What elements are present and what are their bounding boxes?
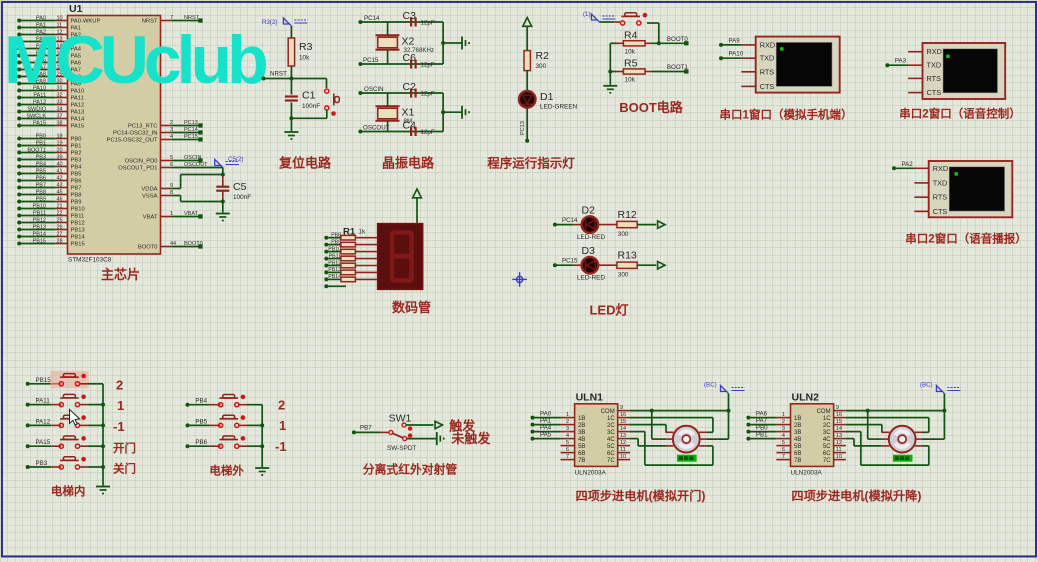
svg-text:PA3: PA3 bbox=[895, 58, 907, 65]
svg-text:42: 42 bbox=[57, 175, 63, 181]
svg-text:5C: 5C bbox=[607, 444, 615, 450]
svg-text:PB12: PB12 bbox=[71, 221, 85, 227]
svg-text:未触发: 未触发 bbox=[450, 431, 491, 446]
svg-text:25: 25 bbox=[57, 217, 63, 223]
svg-text:BOOT电路: BOOT电路 bbox=[619, 100, 684, 115]
svg-text:PA12: PA12 bbox=[36, 418, 51, 425]
svg-text:(BC): (BC) bbox=[920, 382, 933, 389]
svg-text:SW-SPDT: SW-SPDT bbox=[387, 445, 416, 452]
svg-text:PB6: PB6 bbox=[195, 439, 207, 446]
svg-text:PA11: PA11 bbox=[36, 398, 51, 405]
svg-text:X1: X1 bbox=[402, 107, 415, 119]
svg-text:PB12: PB12 bbox=[328, 260, 341, 266]
svg-text:28: 28 bbox=[57, 238, 63, 244]
svg-text:18: 18 bbox=[57, 133, 63, 139]
svg-text:3B: 3B bbox=[794, 430, 801, 436]
svg-text:X2: X2 bbox=[402, 36, 415, 48]
svg-text:3: 3 bbox=[566, 426, 569, 432]
svg-text:14: 14 bbox=[836, 426, 842, 432]
svg-text:10k: 10k bbox=[625, 77, 636, 84]
svg-text:分离式红外对射管: 分离式红外对射管 bbox=[363, 463, 458, 477]
svg-text:38: 38 bbox=[57, 120, 63, 126]
svg-text:串口2窗口（语音播报）: 串口2窗口（语音播报） bbox=[905, 232, 1026, 246]
svg-text:PB6: PB6 bbox=[71, 179, 82, 185]
svg-text:PC15: PC15 bbox=[562, 258, 578, 265]
svg-text:1: 1 bbox=[279, 418, 286, 433]
svg-text:PB11: PB11 bbox=[329, 253, 341, 259]
svg-text:R3: R3 bbox=[299, 41, 313, 53]
svg-text:6C: 6C bbox=[607, 451, 615, 457]
svg-text:串口2窗口（语音控制）: 串口2窗口（语音控制） bbox=[899, 107, 1020, 121]
svg-text:PB1: PB1 bbox=[756, 432, 768, 439]
svg-text:PA1: PA1 bbox=[540, 418, 552, 425]
svg-text:C6: C6 bbox=[403, 52, 417, 64]
svg-text:PA10: PA10 bbox=[729, 51, 744, 58]
svg-text:4: 4 bbox=[782, 433, 785, 439]
svg-text:D2: D2 bbox=[582, 205, 596, 217]
svg-text:PA0: PA0 bbox=[36, 15, 46, 21]
svg-text:PB1: PB1 bbox=[36, 140, 46, 146]
svg-text:16: 16 bbox=[620, 412, 626, 418]
svg-text:PB5: PB5 bbox=[71, 172, 82, 178]
svg-text:PB8: PB8 bbox=[71, 193, 82, 199]
svg-text:PA4: PA4 bbox=[540, 425, 552, 432]
svg-text:VDDA: VDDA bbox=[141, 187, 157, 193]
svg-text:PB0: PB0 bbox=[36, 133, 46, 139]
svg-text:PB11: PB11 bbox=[33, 210, 46, 216]
svg-text:TXD: TXD bbox=[933, 178, 948, 187]
svg-text:PB11: PB11 bbox=[71, 214, 85, 220]
svg-text:PB14: PB14 bbox=[33, 231, 46, 237]
svg-text:MCUclub: MCUclub bbox=[4, 22, 266, 98]
svg-text:VBAT: VBAT bbox=[184, 211, 199, 217]
svg-text:TXD: TXD bbox=[760, 54, 775, 63]
svg-text:PA2: PA2 bbox=[902, 161, 914, 168]
svg-text:PC13: PC13 bbox=[184, 120, 198, 126]
svg-text:4B: 4B bbox=[578, 437, 585, 443]
svg-text:34: 34 bbox=[57, 106, 63, 112]
svg-text:COM: COM bbox=[601, 409, 615, 415]
svg-text:19: 19 bbox=[57, 140, 63, 146]
svg-text:C3: C3 bbox=[403, 10, 417, 22]
svg-text:PC14: PC14 bbox=[364, 15, 380, 22]
svg-text:PB7: PB7 bbox=[36, 182, 46, 188]
svg-text:37: 37 bbox=[57, 113, 63, 119]
svg-text:PB10: PB10 bbox=[33, 203, 46, 209]
svg-text:PB10: PB10 bbox=[71, 207, 85, 213]
svg-text:R12: R12 bbox=[618, 209, 637, 221]
svg-text:5B: 5B bbox=[578, 444, 585, 450]
svg-text:2B: 2B bbox=[578, 423, 585, 429]
svg-text:10k: 10k bbox=[625, 49, 636, 56]
svg-text:数码管: 数码管 bbox=[392, 300, 431, 315]
svg-text:4B: 4B bbox=[794, 437, 801, 443]
svg-text:10: 10 bbox=[836, 454, 842, 460]
svg-text:R13: R13 bbox=[618, 250, 637, 262]
svg-text:PB9: PB9 bbox=[331, 239, 341, 245]
svg-text:13: 13 bbox=[836, 433, 842, 439]
svg-text:ULN2: ULN2 bbox=[792, 392, 820, 404]
svg-text:3: 3 bbox=[782, 426, 785, 432]
svg-text:41: 41 bbox=[57, 168, 63, 174]
svg-text:11: 11 bbox=[620, 447, 626, 453]
svg-text:1B: 1B bbox=[578, 416, 585, 422]
svg-text:关门: 关门 bbox=[113, 462, 136, 476]
svg-text:OSCIN: OSCIN bbox=[364, 86, 384, 93]
svg-text:RTS: RTS bbox=[760, 67, 775, 76]
svg-text:SW1: SW1 bbox=[389, 413, 412, 425]
svg-text:D1: D1 bbox=[540, 91, 554, 103]
svg-text:46: 46 bbox=[57, 196, 63, 202]
svg-text:CTS: CTS bbox=[760, 82, 775, 91]
svg-text:PB2: PB2 bbox=[71, 151, 82, 157]
svg-text:CTS: CTS bbox=[933, 207, 948, 216]
svg-text:1C: 1C bbox=[607, 416, 615, 422]
svg-text:VBAT: VBAT bbox=[143, 215, 158, 221]
svg-text:BOOT1: BOOT1 bbox=[667, 64, 689, 71]
svg-text:PB6: PB6 bbox=[36, 175, 46, 181]
svg-text:PC15: PC15 bbox=[184, 134, 198, 140]
svg-text:10k: 10k bbox=[299, 55, 310, 62]
svg-text:C2: C2 bbox=[403, 81, 417, 93]
svg-text:R4: R4 bbox=[624, 30, 638, 42]
svg-text:39: 39 bbox=[57, 154, 63, 160]
svg-text:RXD: RXD bbox=[927, 47, 942, 56]
svg-text:PB5: PB5 bbox=[36, 168, 46, 174]
svg-text:PA15: PA15 bbox=[36, 439, 51, 446]
svg-text:-1: -1 bbox=[275, 439, 287, 454]
svg-text:PB0: PB0 bbox=[71, 137, 82, 143]
svg-text:6C: 6C bbox=[823, 451, 831, 457]
svg-text:PB5: PB5 bbox=[195, 418, 207, 425]
svg-text:LED-GREEN: LED-GREEN bbox=[540, 104, 578, 111]
svg-text:(BC): (BC) bbox=[704, 382, 717, 389]
svg-text:2C: 2C bbox=[823, 423, 831, 429]
svg-text:D3: D3 bbox=[582, 245, 596, 257]
svg-text:C4: C4 bbox=[403, 120, 417, 132]
svg-text:PB7: PB7 bbox=[71, 186, 82, 192]
svg-text:300: 300 bbox=[618, 272, 629, 279]
svg-text:7: 7 bbox=[566, 454, 569, 460]
svg-text:PC14: PC14 bbox=[184, 127, 198, 133]
svg-text:2B: 2B bbox=[794, 423, 801, 429]
svg-text:2: 2 bbox=[116, 378, 123, 393]
svg-text:12: 12 bbox=[836, 440, 842, 446]
svg-text:PB10: PB10 bbox=[328, 246, 341, 252]
svg-text:2: 2 bbox=[782, 419, 785, 425]
svg-text:CTS: CTS bbox=[927, 88, 942, 97]
svg-text:C1: C1 bbox=[302, 90, 316, 102]
svg-text:5B: 5B bbox=[794, 444, 801, 450]
svg-text:STM32F103C8: STM32F103C8 bbox=[68, 257, 112, 264]
svg-text:6B: 6B bbox=[578, 451, 585, 457]
svg-text:程序运行指示灯: 程序运行指示灯 bbox=[487, 156, 575, 171]
svg-text:45: 45 bbox=[57, 189, 63, 195]
svg-text:12: 12 bbox=[620, 440, 626, 446]
svg-text:12pF: 12pF bbox=[421, 62, 435, 69]
svg-text:5: 5 bbox=[782, 440, 785, 446]
svg-text:40: 40 bbox=[57, 161, 63, 167]
svg-text:PA0: PA0 bbox=[540, 411, 552, 418]
svg-text:100nF: 100nF bbox=[302, 103, 320, 110]
svg-text:PC14: PC14 bbox=[562, 217, 578, 224]
svg-text:ULN2003A: ULN2003A bbox=[575, 470, 607, 477]
svg-text:1B: 1B bbox=[794, 416, 801, 422]
svg-text:RXD: RXD bbox=[760, 40, 775, 49]
svg-text:1C: 1C bbox=[823, 416, 831, 422]
svg-text:C5: C5 bbox=[233, 181, 247, 193]
svg-text:7C: 7C bbox=[607, 458, 615, 464]
svg-text:PA12: PA12 bbox=[33, 99, 46, 105]
svg-text:12pF: 12pF bbox=[421, 20, 435, 27]
svg-text:PB15: PB15 bbox=[71, 242, 85, 248]
svg-text:复位电路: 复位电路 bbox=[278, 156, 332, 171]
svg-text:PB13: PB13 bbox=[328, 267, 341, 273]
svg-text:1: 1 bbox=[782, 412, 785, 418]
svg-text:20: 20 bbox=[57, 147, 63, 153]
svg-text:LED-RED: LED-RED bbox=[577, 234, 605, 241]
svg-text:OSCOUT: OSCOUT bbox=[184, 162, 208, 168]
svg-text:COM: COM bbox=[817, 409, 831, 415]
svg-text:VSSA: VSSA bbox=[142, 194, 158, 200]
svg-text:SWCLK: SWCLK bbox=[26, 113, 46, 119]
svg-text:PC13_RTC: PC13_RTC bbox=[128, 124, 158, 130]
svg-text:4C: 4C bbox=[607, 437, 615, 443]
svg-text:PB14: PB14 bbox=[71, 235, 86, 241]
svg-text:LED-RED: LED-RED bbox=[577, 275, 605, 282]
svg-text:13: 13 bbox=[620, 433, 626, 439]
svg-text:PA9: PA9 bbox=[729, 37, 741, 44]
svg-text:5: 5 bbox=[566, 440, 569, 446]
svg-text:PB4: PB4 bbox=[36, 161, 46, 167]
svg-text:PB0: PB0 bbox=[756, 425, 768, 432]
svg-text:7B: 7B bbox=[578, 458, 585, 464]
svg-text:TXD: TXD bbox=[927, 61, 942, 70]
svg-text:4: 4 bbox=[566, 433, 569, 439]
svg-text:RTS: RTS bbox=[933, 193, 948, 202]
svg-text:26: 26 bbox=[57, 224, 63, 230]
svg-text:15: 15 bbox=[836, 419, 842, 425]
svg-text:PA13: PA13 bbox=[71, 110, 85, 116]
svg-text:RTS: RTS bbox=[927, 74, 942, 83]
svg-text:300: 300 bbox=[618, 231, 629, 238]
svg-text:PA12: PA12 bbox=[71, 103, 85, 109]
svg-text:PC15: PC15 bbox=[363, 57, 379, 64]
svg-text:LED灯: LED灯 bbox=[589, 303, 628, 318]
svg-text:四项步进电机(模拟开门): 四项步进电机(模拟开门) bbox=[576, 488, 706, 503]
svg-text:100nF: 100nF bbox=[233, 194, 251, 201]
svg-text:PB15: PB15 bbox=[36, 377, 52, 384]
svg-text:16: 16 bbox=[836, 412, 842, 418]
svg-text:R3(2): R3(2) bbox=[262, 19, 277, 26]
svg-text:-1: -1 bbox=[113, 419, 125, 434]
svg-text:2: 2 bbox=[278, 398, 285, 413]
svg-text:四项步进电机(模拟升降): 四项步进电机(模拟升降) bbox=[791, 488, 921, 503]
svg-text:PB9: PB9 bbox=[71, 200, 82, 206]
svg-text:C5(2): C5(2) bbox=[228, 156, 243, 163]
svg-text:(1): (1) bbox=[583, 11, 591, 18]
svg-text:ULN2003A: ULN2003A bbox=[791, 470, 823, 477]
svg-text:NRST: NRST bbox=[270, 71, 287, 78]
svg-text:14: 14 bbox=[620, 426, 626, 432]
svg-text:12pF: 12pF bbox=[421, 91, 435, 98]
svg-text:开门: 开门 bbox=[113, 441, 136, 455]
svg-text:BOOT0: BOOT0 bbox=[138, 245, 158, 251]
svg-text:PB13: PB13 bbox=[33, 224, 46, 230]
svg-text:U1: U1 bbox=[69, 3, 83, 15]
svg-text:PB9: PB9 bbox=[36, 196, 46, 202]
svg-text:电梯内: 电梯内 bbox=[51, 484, 86, 498]
svg-text:9: 9 bbox=[620, 405, 623, 411]
svg-text:PC13: PC13 bbox=[520, 121, 526, 135]
svg-text:PB1: PB1 bbox=[71, 144, 82, 150]
svg-text:15: 15 bbox=[620, 419, 626, 425]
svg-text:4C: 4C bbox=[823, 437, 831, 443]
svg-text:PB8: PB8 bbox=[36, 189, 46, 195]
svg-text:PB14: PB14 bbox=[328, 274, 341, 280]
svg-text:22: 22 bbox=[57, 210, 63, 216]
svg-text:BOOT1: BOOT1 bbox=[27, 147, 46, 153]
svg-text:27: 27 bbox=[57, 231, 63, 237]
svg-text:33: 33 bbox=[57, 99, 63, 105]
svg-text:PB4: PB4 bbox=[71, 165, 83, 171]
svg-text:7B: 7B bbox=[794, 458, 801, 464]
svg-text:SWDIO: SWDIO bbox=[27, 106, 46, 112]
svg-text:PA7: PA7 bbox=[756, 418, 768, 425]
svg-text:12pF: 12pF bbox=[421, 129, 435, 136]
svg-text:PA15: PA15 bbox=[33, 120, 46, 126]
svg-text:PB3: PB3 bbox=[36, 460, 48, 467]
svg-text:3C: 3C bbox=[823, 430, 831, 436]
svg-text:5C: 5C bbox=[823, 444, 831, 450]
svg-text:10: 10 bbox=[620, 454, 626, 460]
svg-text:OSCIN_PD0: OSCIN_PD0 bbox=[125, 159, 158, 165]
svg-text:1: 1 bbox=[117, 398, 124, 413]
svg-text:300: 300 bbox=[536, 63, 547, 70]
svg-text:串口1窗口（模拟手机端）: 串口1窗口（模拟手机端） bbox=[720, 108, 853, 122]
svg-text:PB13: PB13 bbox=[71, 228, 85, 234]
svg-text:R5: R5 bbox=[624, 58, 638, 70]
svg-text:OSCOUT: OSCOUT bbox=[363, 125, 390, 132]
svg-text:1k: 1k bbox=[359, 229, 366, 236]
svg-text:9: 9 bbox=[836, 405, 839, 411]
svg-text:R2: R2 bbox=[536, 50, 550, 62]
svg-text:PC14-OSC32_IN: PC14-OSC32_IN bbox=[113, 131, 157, 137]
svg-text:PB4: PB4 bbox=[195, 398, 207, 405]
svg-text:10: 10 bbox=[57, 15, 63, 21]
svg-text:PA5: PA5 bbox=[540, 432, 552, 439]
svg-text:7C: 7C bbox=[823, 458, 831, 464]
svg-text:PB7: PB7 bbox=[360, 425, 372, 432]
svg-text:NRST: NRST bbox=[184, 15, 200, 21]
svg-text:3B: 3B bbox=[578, 430, 585, 436]
svg-text:晶振电路: 晶振电路 bbox=[382, 156, 435, 171]
svg-text:PA6: PA6 bbox=[756, 411, 768, 418]
svg-text:1: 1 bbox=[566, 412, 569, 418]
svg-text:OSCOUT_PD1: OSCOUT_PD1 bbox=[118, 166, 157, 172]
svg-text:6: 6 bbox=[782, 447, 785, 453]
svg-text:7: 7 bbox=[782, 454, 785, 460]
svg-text:ULN1: ULN1 bbox=[576, 392, 604, 404]
svg-text:11: 11 bbox=[836, 447, 842, 453]
svg-text:PC15-OSC32_OUT: PC15-OSC32_OUT bbox=[107, 138, 158, 144]
svg-text:PA15: PA15 bbox=[71, 124, 85, 130]
svg-text:PA14: PA14 bbox=[71, 117, 86, 123]
svg-text:BOOT0: BOOT0 bbox=[667, 36, 689, 43]
svg-text:PB3: PB3 bbox=[36, 154, 46, 160]
svg-text:21: 21 bbox=[57, 203, 63, 209]
svg-text:6B: 6B bbox=[794, 451, 801, 457]
svg-text:2: 2 bbox=[566, 419, 569, 425]
svg-text:RXD: RXD bbox=[933, 164, 948, 173]
svg-text:2C: 2C bbox=[607, 423, 615, 429]
svg-text:PB15: PB15 bbox=[33, 238, 46, 244]
svg-text:PB12: PB12 bbox=[33, 217, 46, 223]
svg-text:主芯片: 主芯片 bbox=[101, 267, 140, 282]
svg-text:PB3: PB3 bbox=[71, 158, 82, 164]
svg-text:43: 43 bbox=[57, 182, 63, 188]
svg-text:PB8: PB8 bbox=[331, 233, 341, 239]
svg-text:电梯外: 电梯外 bbox=[209, 464, 244, 478]
svg-text:6: 6 bbox=[566, 447, 569, 453]
svg-text:3C: 3C bbox=[607, 430, 615, 436]
